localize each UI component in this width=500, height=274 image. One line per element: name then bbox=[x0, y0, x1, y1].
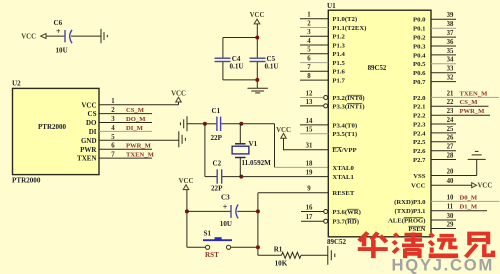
watermark 华清远见 (red strokes) bbox=[358, 232, 493, 258]
svg-text:R1: R1 bbox=[274, 246, 283, 254]
svg-text:P3.5(T1): P3.5(T1) bbox=[332, 131, 357, 138]
pin 23 U1 (P2.2) bbox=[413, 108, 490, 120]
pin 38 U1 (P0.1) bbox=[413, 21, 456, 32]
wire C1 to XTAL0 rail bbox=[221, 123, 274, 125]
svg-text:D1_M: D1_M bbox=[460, 204, 478, 211]
pin 2 (CS) of U2 bbox=[88, 107, 116, 118]
svg-text:P2.5: P2.5 bbox=[413, 139, 426, 146]
svg-text:+: + bbox=[223, 202, 228, 211]
pin 24 U1 (P2.3) bbox=[413, 117, 456, 128]
node A (C1/C2 ground rail) bbox=[203, 122, 207, 126]
svg-text:9: 9 bbox=[307, 186, 311, 193]
capacitor C1 22P bbox=[211, 107, 223, 142]
svg-text:P0.5: P0.5 bbox=[413, 61, 426, 68]
pin 32 U1 (P0.7) bbox=[413, 75, 456, 87]
ground (crystal caps) bbox=[180, 116, 187, 131]
svg-text:ALE(PROG): ALE(PROG) bbox=[388, 217, 426, 224]
svg-text:P2.7: P2.7 bbox=[413, 157, 426, 164]
svg-text:18: 18 bbox=[306, 160, 313, 167]
svg-text:P0.4: P0.4 bbox=[413, 52, 426, 59]
svg-text:32: 32 bbox=[447, 75, 454, 82]
svg-text:C1: C1 bbox=[212, 107, 221, 115]
pin 19 U1 (XTAL1) bbox=[306, 170, 354, 182]
pin 22 U1 (P2.1) bbox=[413, 99, 488, 111]
net label DI_M bbox=[126, 125, 144, 132]
capacitor C6 10U bbox=[54, 19, 73, 55]
svg-text:7: 7 bbox=[111, 152, 115, 159]
svg-text:3: 3 bbox=[111, 116, 115, 123]
wire node to C3 bbox=[187, 210, 231, 212]
svg-text:23: 23 bbox=[447, 108, 454, 115]
svg-text:P0.1: P0.1 bbox=[413, 26, 425, 33]
svg-text:6: 6 bbox=[307, 56, 311, 63]
svg-text:CS: CS bbox=[88, 110, 97, 118]
node: S1/rail junction bbox=[256, 245, 260, 249]
svg-text:35: 35 bbox=[447, 48, 454, 55]
node: top junction bbox=[255, 36, 259, 40]
svg-text:P3.2(INT0): P3.2(INT0) bbox=[332, 95, 364, 102]
pin 21 U1 (P2.0) bbox=[413, 90, 499, 102]
capacitor C3 10U bbox=[220, 194, 238, 228]
svg-text:PWR: PWR bbox=[80, 146, 97, 154]
wire top rail to C4 branch bbox=[223, 38, 257, 58]
net label CS_M bbox=[460, 99, 479, 106]
svg-text:D0_M: D0_M bbox=[460, 194, 478, 201]
svg-text:39: 39 bbox=[447, 12, 454, 19]
svg-text:17: 17 bbox=[306, 214, 313, 221]
ground (C6) bbox=[101, 29, 107, 43]
svg-text:27: 27 bbox=[447, 144, 454, 151]
svg-text:+: + bbox=[56, 27, 61, 36]
wire C4 to bottom rail bbox=[223, 62, 257, 80]
svg-text:DI_M: DI_M bbox=[126, 125, 144, 132]
pin 6 U1 (P1.5) bbox=[300, 56, 346, 68]
svg-text:12: 12 bbox=[306, 90, 313, 97]
wire VCC node down to C5 bbox=[256, 38, 258, 58]
pin 3 U1 (P1.2) bbox=[300, 29, 346, 41]
svg-text:16: 16 bbox=[306, 204, 313, 211]
svg-text:P1.5: P1.5 bbox=[332, 60, 345, 67]
power port VCC (C4/C5) bbox=[250, 12, 265, 24]
svg-text:TXEN_M: TXEN_M bbox=[126, 152, 155, 159]
svg-text:GND: GND bbox=[81, 137, 97, 145]
svg-text:(TXD)P3.1: (TXD)P3.1 bbox=[394, 208, 425, 215]
svg-text:22P: 22P bbox=[211, 134, 223, 142]
svg-text:S1: S1 bbox=[204, 230, 212, 238]
power port VCC (pin 40) bbox=[472, 183, 493, 190]
svg-text:4: 4 bbox=[111, 125, 115, 132]
wire C5 to ground node bbox=[256, 62, 258, 88]
svg-text:P1.6: P1.6 bbox=[332, 69, 345, 76]
svg-text:P3.4(T0): P3.4(T0) bbox=[332, 122, 357, 129]
capacitor C5 0.1U bbox=[250, 55, 279, 71]
power port VCC (U2 pin1) bbox=[171, 91, 186, 105]
svg-text:VCC: VCC bbox=[478, 183, 493, 190]
pin 29 U1 (PSEN) bbox=[408, 221, 456, 233]
svg-text:DO_M: DO_M bbox=[126, 116, 146, 123]
pin 36 U1 (P0.3) bbox=[413, 39, 456, 51]
resistor R1 10K bbox=[274, 246, 301, 268]
svg-text:24: 24 bbox=[447, 117, 454, 124]
svg-text:P0.2: P0.2 bbox=[413, 35, 426, 42]
pin 31 U1 (EA/VPP) bbox=[306, 143, 357, 155]
svg-text:5: 5 bbox=[111, 134, 115, 141]
svg-text:TXEN: TXEN bbox=[77, 155, 96, 163]
svg-text:30: 30 bbox=[447, 213, 454, 220]
svg-text:P2.1: P2.1 bbox=[413, 104, 425, 111]
pin 16 U1 (P3.6(WR)) bbox=[301, 204, 361, 216]
net label D1_M bbox=[460, 204, 478, 211]
pin 14 U1 (P3.4(T0)) bbox=[300, 118, 357, 130]
svg-text:C3: C3 bbox=[221, 194, 230, 202]
ground (VSS, inverted) bbox=[468, 151, 486, 159]
wire pin4 U2, net DI_M bbox=[99, 130, 152, 132]
wire reset rail vertical bbox=[257, 193, 259, 256]
pin 10 U1 ((RXD)P3.0) bbox=[394, 194, 499, 206]
pin 4 (DI) of U2 bbox=[89, 125, 116, 136]
svg-text:XTAL1: XTAL1 bbox=[332, 174, 353, 181]
svg-text:PSEN: PSEN bbox=[408, 226, 425, 233]
svg-text:CS_M: CS_M bbox=[460, 99, 479, 106]
pin 15 U1 (P3.5(T1)) bbox=[300, 127, 357, 139]
ground (U2 GND pin5) bbox=[179, 131, 186, 147]
wire S1 to reset rail bbox=[231, 246, 258, 248]
svg-text:2: 2 bbox=[111, 107, 115, 114]
wire VCC down to C3 node bbox=[186, 190, 188, 212]
svg-text:31: 31 bbox=[306, 143, 313, 150]
svg-text:P1.4: P1.4 bbox=[332, 51, 345, 58]
svg-text:15: 15 bbox=[306, 127, 313, 134]
svg-text:RST: RST bbox=[205, 251, 219, 259]
svg-text:89C52: 89C52 bbox=[327, 238, 347, 246]
wire C3 to reset rail bbox=[237, 210, 258, 212]
svg-text:P2.2: P2.2 bbox=[413, 113, 426, 120]
svg-text:PTR2000: PTR2000 bbox=[38, 123, 67, 131]
node: C3 left bbox=[185, 209, 189, 213]
svg-text:29: 29 bbox=[447, 221, 454, 228]
net label PWR_M bbox=[126, 143, 152, 150]
svg-text:34: 34 bbox=[447, 57, 454, 64]
svg-text:10K: 10K bbox=[275, 260, 288, 268]
svg-text:C6: C6 bbox=[54, 19, 63, 27]
svg-text:P3.7(RD): P3.7(RD) bbox=[332, 219, 359, 226]
svg-text:1: 1 bbox=[111, 98, 115, 105]
svg-text:P2.4: P2.4 bbox=[413, 130, 426, 137]
svg-text:P2.6: P2.6 bbox=[413, 148, 426, 155]
svg-text:20: 20 bbox=[447, 168, 454, 175]
svg-text:P3.3(INT1): P3.3(INT1) bbox=[332, 103, 364, 110]
svg-text:26: 26 bbox=[447, 135, 454, 142]
svg-text:P1.1(T2EX): P1.1(T2EX) bbox=[332, 25, 366, 32]
svg-text:36: 36 bbox=[447, 39, 454, 46]
watermark HQYJ.COM bbox=[392, 255, 495, 274]
svg-text:22P: 22P bbox=[211, 185, 223, 193]
power port VCC (EA/VPP) bbox=[276, 127, 291, 138]
pin 5 U1 (P1.4) bbox=[300, 47, 346, 59]
svg-text:5: 5 bbox=[307, 47, 311, 54]
svg-text:P1.3: P1.3 bbox=[332, 42, 345, 49]
pin 33 U1 (P0.6) bbox=[413, 66, 456, 78]
wire pin3 U2, net DO_M bbox=[99, 122, 152, 124]
power port VCC (C6 branch) bbox=[21, 34, 46, 41]
svg-text:P3.6(WR): P3.6(WR) bbox=[332, 209, 360, 216]
microcontroller U1 89C52 bbox=[327, 2, 431, 237]
svg-text:P2.3: P2.3 bbox=[413, 121, 426, 128]
pin 30 U1 (ALE(PROG)) bbox=[388, 213, 456, 225]
svg-text:RESET: RESET bbox=[332, 190, 354, 197]
pin 13 U1 (P3.3(INT1)) bbox=[300, 99, 365, 111]
pin 7 (TXEN) of U2 bbox=[77, 152, 115, 163]
pin 20 U1 (VSS) bbox=[413, 168, 476, 180]
wire VCC to pin31 bbox=[284, 138, 329, 150]
capacitor C4 0.1U bbox=[215, 55, 244, 71]
pin 6 (PWR) of U2 bbox=[80, 143, 115, 154]
wire VCC to C6 bbox=[46, 35, 65, 37]
switch S1 RST bbox=[203, 230, 232, 260]
svg-text:8: 8 bbox=[307, 73, 311, 80]
pin 27 U1 (P2.6) bbox=[413, 144, 456, 156]
designator PTR2000 under box bbox=[12, 177, 41, 185]
svg-text:TXEN_M: TXEN_M bbox=[460, 90, 489, 97]
svg-text:P2.0: P2.0 bbox=[413, 95, 426, 102]
svg-text:VCC: VCC bbox=[21, 34, 36, 41]
svg-text:2: 2 bbox=[307, 20, 311, 27]
wire pin1 U2 to VCC port bbox=[99, 104, 179, 106]
svg-text:89C52: 89C52 bbox=[368, 65, 387, 72]
pin 12 U1 (P3.2(INT0)) bbox=[300, 90, 365, 102]
svg-text:3: 3 bbox=[307, 29, 311, 36]
svg-text:P1.7: P1.7 bbox=[332, 78, 345, 85]
pin 28 U1 (P2.7) bbox=[413, 152, 456, 164]
capacitor C2 22P bbox=[211, 160, 223, 193]
svg-text:PTR2000: PTR2000 bbox=[12, 177, 41, 185]
svg-text:33: 33 bbox=[447, 66, 454, 73]
svg-text:VCC: VCC bbox=[250, 12, 265, 19]
svg-text:C2: C2 bbox=[213, 160, 222, 168]
svg-text:11: 11 bbox=[447, 204, 454, 211]
node: crystal bottom bbox=[239, 175, 243, 179]
svg-text:40: 40 bbox=[447, 178, 454, 185]
wire VCC down to node bbox=[256, 24, 258, 38]
wire ground to node A bbox=[187, 123, 205, 125]
node: crystal top bbox=[239, 122, 243, 126]
crystal V1 11.0592M bbox=[232, 124, 271, 177]
wire reset rail to pin9 RESET bbox=[258, 192, 328, 194]
svg-text:0.1U: 0.1U bbox=[230, 63, 244, 71]
net label TXEN_M bbox=[126, 152, 155, 159]
svg-text:PWR_M: PWR_M bbox=[460, 108, 486, 115]
pin 5 (GND) of U2 bbox=[81, 134, 115, 145]
net label TXEN_M bbox=[460, 90, 489, 97]
pin 18 U1 (XTAL0) bbox=[306, 160, 355, 172]
svg-text:PWR_M: PWR_M bbox=[126, 143, 152, 150]
pin 39 U1 (P0.0) bbox=[413, 12, 456, 24]
pin 8 U1 (P1.7) bbox=[300, 73, 346, 85]
ground (R1) bbox=[328, 246, 335, 265]
svg-text:HQYJ.COM: HQYJ.COM bbox=[392, 255, 495, 274]
pin 34 U1 (P0.5) bbox=[413, 57, 456, 68]
svg-text:(RXD)P3.0: (RXD)P3.0 bbox=[394, 199, 426, 206]
svg-text:VCC: VCC bbox=[411, 183, 426, 190]
svg-text:XTAL0: XTAL0 bbox=[332, 165, 354, 172]
wire pin5 U2 to ground bbox=[99, 139, 179, 141]
node: reset rail at C3 bbox=[256, 209, 260, 213]
PTR2000 module U2 bbox=[12, 79, 99, 174]
svg-text:CS_M: CS_M bbox=[126, 107, 145, 114]
pin 26 U1 (P2.5) bbox=[413, 135, 456, 147]
designator 89C52 under box bbox=[327, 238, 347, 246]
pin 1 (VCC) of U2 bbox=[81, 98, 115, 109]
svg-text:1: 1 bbox=[307, 12, 311, 19]
pin 3 (DO) of U2 bbox=[86, 116, 115, 127]
svg-text:P1.2: P1.2 bbox=[332, 34, 345, 41]
wire pin2 U2, net CS_M bbox=[99, 113, 152, 115]
svg-text:38: 38 bbox=[447, 21, 454, 28]
pin 4 U1 (P1.3) bbox=[300, 38, 346, 50]
svg-text:19: 19 bbox=[306, 170, 313, 177]
wire C6 to ground bbox=[71, 35, 101, 37]
wire node A down to C2 bbox=[204, 124, 206, 177]
svg-text:DI: DI bbox=[89, 128, 97, 136]
pin 35 U1 (P0.4) bbox=[413, 48, 456, 60]
pin 1 U1 (P1.0(T2)) bbox=[300, 12, 357, 24]
svg-text:22: 22 bbox=[447, 99, 454, 106]
svg-text:U2: U2 bbox=[12, 79, 21, 87]
wire VCC node down to S1 bbox=[187, 211, 206, 247]
wire pin6 U2, net PWR_M bbox=[99, 148, 152, 150]
svg-text:7: 7 bbox=[307, 64, 311, 71]
svg-text:14: 14 bbox=[306, 118, 313, 125]
net label CS_M bbox=[126, 107, 145, 114]
pin 37 U1 (P0.2) bbox=[413, 30, 456, 42]
svg-text:P1.0(T2): P1.0(T2) bbox=[332, 16, 357, 23]
pin 40 U1 (VCC) bbox=[411, 178, 472, 190]
pin 17 U1 (P3.7(RD)) bbox=[301, 214, 359, 226]
pin 11 U1 ((TXD)P3.1) bbox=[394, 204, 487, 216]
svg-text:4: 4 bbox=[307, 38, 311, 45]
svg-text:VCC: VCC bbox=[81, 101, 96, 109]
svg-text:10U: 10U bbox=[220, 220, 232, 228]
pin 25 U1 (P2.4) bbox=[413, 126, 456, 138]
svg-text:21: 21 bbox=[447, 90, 454, 97]
svg-text:28: 28 bbox=[447, 152, 454, 159]
svg-text:P0.3: P0.3 bbox=[413, 43, 426, 50]
wire C2 row to pin19 XTAL1 bbox=[205, 176, 328, 178]
pin 9 U1 (RESET) bbox=[307, 186, 355, 198]
svg-text:P0.6: P0.6 bbox=[413, 70, 426, 77]
wire R1 to ground bbox=[301, 254, 328, 256]
wire node A to C1 bbox=[205, 123, 217, 125]
svg-text:10U: 10U bbox=[56, 47, 68, 55]
svg-text:P0.0: P0.0 bbox=[413, 17, 426, 24]
wire pin7 U2, net TXEN_M bbox=[99, 157, 152, 159]
svg-text:11.0592M: 11.0592M bbox=[242, 159, 272, 167]
svg-text:13: 13 bbox=[306, 99, 313, 106]
wire VSS to ground bbox=[476, 159, 478, 175]
wire rail to R1 bbox=[258, 254, 282, 256]
net label D0_M bbox=[460, 194, 478, 201]
svg-text:DO: DO bbox=[86, 119, 97, 127]
node: bottom junction bbox=[255, 78, 259, 82]
wire XTAL0 bend down to pin18 bbox=[275, 124, 329, 168]
net label PWR_M bbox=[460, 108, 486, 115]
svg-text:37: 37 bbox=[447, 30, 454, 37]
power port VCC (reset) bbox=[179, 178, 194, 189]
svg-text:P0.7: P0.7 bbox=[413, 79, 426, 86]
net label DO_M bbox=[126, 116, 146, 123]
pin 7 U1 (P1.6) bbox=[300, 64, 346, 76]
svg-text:6: 6 bbox=[111, 143, 115, 150]
svg-text:V1: V1 bbox=[249, 140, 258, 148]
ground (C4/C5) bbox=[248, 88, 268, 93]
pin 2 U1 (P1.1(T2EX)) bbox=[300, 20, 366, 32]
svg-text:10: 10 bbox=[447, 194, 454, 201]
svg-text:25: 25 bbox=[447, 126, 454, 133]
svg-text:U1: U1 bbox=[327, 2, 336, 10]
svg-text:VSS: VSS bbox=[413, 173, 426, 180]
svg-text:0.1U: 0.1U bbox=[265, 63, 279, 71]
svg-text:EA/VPP: EA/VPP bbox=[332, 147, 356, 154]
